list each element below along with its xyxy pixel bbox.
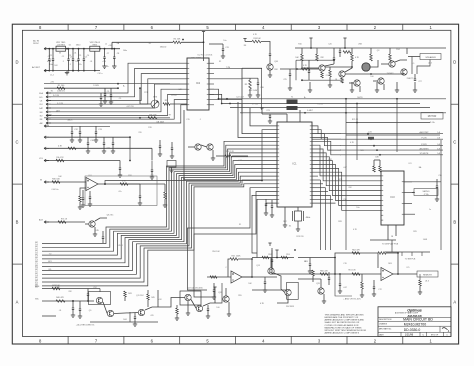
resistor R6 [56,159,64,162]
wire C25 lead [289,69,291,74]
svg-text:C18: C18 [90,140,93,142]
wire cap C4 top lead [72,49,74,59]
svg-text:C40 10u: C40 10u [51,189,58,191]
junction rail C5 [78,48,80,50]
svg-text:AC RET: AC RET [32,66,41,69]
wire R33 out [232,155,248,157]
connector arrow fan 2 [46,99,51,102]
wire R21 lead [379,160,381,166]
svg-text:4MHz: 4MHz [306,217,311,219]
junction BR feed [334,257,336,259]
svg-text:.01: .01 [59,310,62,312]
svg-text:220: 220 [138,132,141,134]
wire to SERVO label [412,191,414,194]
wire Q11 collector [145,307,158,310]
svg-text:KEY: KEY [35,242,38,244]
svg-text:IC4: IC4 [89,175,92,177]
svg-text:C1: C1 [48,56,50,58]
wire BR feed drop [334,258,336,275]
ground C42 [158,154,162,156]
svg-text:C12: C12 [74,129,77,131]
wire R20 lead [373,160,375,166]
wire MR row5 [346,134,440,136]
zone tick right [451,183,459,185]
wire IC2 fan line 3 [46,79,187,104]
junction net row 2 [373,145,375,147]
svg-text:IC2 LA4285: IC2 LA4285 [191,57,201,60]
wire IC1 right pin 16 stub [312,187,326,189]
wire C27 lead [414,74,416,79]
svg-text:RT1: RT1 [144,92,148,94]
ground C55 [206,316,210,318]
op-amp U6 [381,268,393,281]
ground C21 [268,121,272,123]
transistor Q11 [138,309,144,315]
svg-text:Q8 2SC: Q8 2SC [107,215,114,217]
svg-text:DATE: DATE [379,333,384,336]
svg-text:C72: C72 [378,289,381,291]
amp block B box [180,291,201,305]
connector arrow T182 [44,181,49,184]
svg-text:C23: C23 [266,110,269,112]
resistor R39 [343,51,351,54]
wire IC1 right pin 15 stub [312,183,323,185]
resistor R52 [262,256,269,259]
wire C25 lead2 [289,75,291,88]
junction [276,257,278,259]
svg-text:R22: R22 [283,221,286,223]
junction opamp out [104,183,106,185]
resistor R3 [148,117,157,120]
junction rail C3 [68,48,70,50]
svg-text:2.2: 2.2 [326,75,329,77]
zone tick left [12,263,22,265]
wire trunk vertical x346 [345,99,347,250]
capacitor C21 [269,116,271,117]
svg-text:SHALL NOT BE REPRODUCED OR: SHALL NOT BE REPRODUCED OR [325,321,360,324]
ground C8 [112,66,116,68]
junction [310,47,312,49]
resistor R32 [164,192,167,199]
svg-text:1/31/96: 1/31/96 [405,334,414,337]
capacitor C24 [308,71,310,72]
junction TRX1 [333,59,335,61]
junction rail C2 [52,48,54,50]
capacitor C63 [309,264,311,265]
wire CX1 lead [265,199,267,204]
wire IC3 right pin 1 [404,192,415,194]
ground C50 [71,315,75,317]
wire cap C3 bottom lead [68,60,70,70]
connector arrow fan 6 [46,114,51,117]
zone tick top [346,24,348,30]
svg-text:2SC1815: 2SC1815 [296,69,304,71]
wire IC2 right pin 6 stub [209,93,214,95]
wire TRX vert a [295,60,297,80]
svg-text:R62 47K: R62 47K [352,249,360,251]
resistor R14 [389,54,392,61]
wire C16 lead2 [257,84,259,95]
wire IC1 right pin 17 stub [312,191,328,193]
svg-text:9VDC: 9VDC [33,43,39,45]
wire bus DB10 staircase [42,180,277,282]
connector OUT box [417,271,438,277]
ground C63 [308,271,312,273]
wire cap C3 top lead [68,49,70,59]
junction [117,83,119,85]
svg-text:R9: R9 [245,84,247,86]
wire Q15 collector [320,279,322,288]
ground C54 [133,324,137,326]
wire Q18 collector [203,303,215,306]
svg-text:2SB772: 2SB772 [407,78,414,80]
capacitor CN0 [87,143,89,144]
zone tick right [451,103,459,105]
wire row4 drop [119,161,121,169]
capacitor C51 [79,309,81,310]
wire trunk x242 [241,68,243,114]
wire C60 lead2 [213,291,215,297]
wire C11 lead [222,44,224,49]
svg-text:R27: R27 [338,179,341,181]
ground C16 [256,95,260,97]
svg-text:C15: C15 [186,119,189,121]
svg-text:+5V REG: +5V REG [56,45,65,47]
wire net row3 [44,117,170,119]
capacitor C25 [289,74,291,75]
resistor R63 [378,252,386,255]
junction [261,180,263,182]
wire IC1 right pin 0 to net row [312,126,341,134]
svg-text:D-4: D-4 [35,260,38,262]
svg-text:KEY: KEY [35,281,38,283]
wire bus DB8 staircase [42,172,277,274]
svg-text:R53: R53 [286,254,289,256]
wire Q1 collector [325,64,334,66]
ground X1 [296,229,300,231]
capacitor CN1 [103,143,105,144]
svg-text:100K: 100K [423,239,428,241]
wire cap C2 top lead [52,49,54,59]
wire BC to Q15 [298,278,321,280]
wire MR row1 [219,98,447,100]
svg-text:10u: 10u [223,40,226,42]
junction row1 feed [218,98,220,100]
wire IC1 pin19 down to BC [257,199,277,257]
resistor R4 [173,41,181,44]
capacitor C72 [373,287,375,288]
svg-text:Q11 2SC: Q11 2SC [136,295,144,297]
svg-text:1u: 1u [429,209,431,211]
wire C8 lead [113,49,115,57]
wire IC2 fan line 0 [46,63,187,93]
svg-text:REG: REG [93,45,98,47]
trimmer VR3 [151,100,159,108]
wire CF lead [100,93,102,97]
junction [294,249,296,251]
ground R19 [328,85,332,87]
connector arrow T222 [44,221,49,224]
capacitor C1 [48,59,50,60]
svg-text:R25 1K: R25 1K [352,119,359,121]
microcontroller U1 (IC1) [277,122,312,207]
wire net row 4 [340,154,443,156]
wire Q10-Q11 [114,313,138,314]
wire Q2 collector [345,61,352,72]
resistor R60 [320,273,328,276]
wire BL row0 [42,288,100,290]
svg-text:KEY: KEY [35,261,38,263]
wire C62 lead2 [328,279,330,285]
wire IC1 right pin 4 to net row [312,141,341,155]
wire C55 lead2 [207,310,209,316]
wire C55 lead [207,305,209,309]
power +9V blockB [213,287,216,290]
ground C7 [102,66,106,68]
svg-text:Q12: Q12 [218,292,222,294]
capacitor C20 [333,58,335,59]
zone tick top [402,24,404,30]
svg-text:C45 .1: C45 .1 [117,245,123,247]
connector arrow T126 [44,125,49,128]
wire C24 lead [308,60,310,71]
svg-text:C44: C44 [238,160,241,162]
wire bus DB0 staircase [42,141,277,243]
wire LL row [46,221,85,223]
svg-text:C4: C4 [87,55,89,57]
capacitor C6 [83,59,85,60]
wire gnd stub [66,71,68,73]
capacitor C70 [271,260,273,261]
net label box SERVO [414,189,438,196]
wire cap C2 bottom lead [52,60,54,70]
wire BL vcc drop [157,290,159,307]
junction trunk2 [356,103,358,105]
wire R41 lead [124,297,126,301]
svg-text:IC2: IC2 [196,81,201,85]
transistor Q9 [96,297,102,303]
svg-text:D1: D1 [149,43,151,45]
svg-text:D-3: D-3 [35,256,38,258]
wire C61 lead2 [264,283,266,290]
capacitor C45 [102,237,104,238]
wire bus DB9 staircase [42,176,277,278]
wire C54 lead2 [134,318,136,324]
svg-text:C13: C13 [98,129,101,131]
transistor Q6 [195,144,201,150]
junction [226,98,228,100]
wire bus DB4 staircase [42,157,277,259]
resistor R31 [120,183,128,186]
ground CX2 [270,215,274,217]
transistor Q12 [223,296,229,302]
svg-text:THIS DRAWING AND SPECIFICATION: THIS DRAWING AND SPECIFICATIONS [325,314,365,317]
svg-text:470u: 470u [47,61,51,63]
connector arrow T148 [44,147,49,150]
wire bus DB5 staircase [42,161,277,263]
ground R64 [360,295,364,297]
capacitor C27 [414,79,416,80]
wire R19 lead2 [329,77,331,85]
wire IC1 right pin 16 drop [325,188,327,250]
svg-text:R26: R26 [360,150,363,152]
svg-text:R50 10K: R50 10K [212,251,220,253]
wire bus DB2 staircase [42,149,277,251]
wire IC2 fan line 5 [46,89,187,112]
wire trunk vertical x397 [396,99,398,152]
wire R20 R21 top [374,159,380,161]
svg-text:D: D [15,60,18,65]
wire Q6-Q7 [201,145,207,147]
wire C26 lead [339,48,341,51]
wire BL row0 drop [99,289,101,293]
wire R18 left [245,41,252,43]
op-amp U2 (IC2) [187,58,209,110]
svg-text:F-CON: F-CON [53,95,60,97]
wire mid row1 [46,125,110,127]
wire C14 lead2 [119,169,121,175]
ground CX1 [264,213,268,215]
connector MOTOR box [421,113,443,120]
transistor Q13 [268,268,274,274]
junction net row 1 [370,138,372,140]
wire blockB out [215,283,222,303]
wire C17 lead [269,50,271,54]
zone tick bottom [235,336,237,344]
svg-text:R52: R52 [268,254,271,256]
svg-text:C9: C9 [119,98,121,100]
svg-text:R31: R31 [128,175,131,177]
wire bus DB11 staircase [42,184,277,286]
svg-text:C25: C25 [283,79,286,81]
svg-text:TAPE: TAPE [35,285,40,288]
connector arrow fan 3 [46,103,51,106]
transistor Q17 [185,294,191,300]
junction trimmer feed [139,87,141,89]
wire R17 lead [249,78,251,80]
wire IC1 left pin 3 up [238,102,277,138]
capacitor C30 [436,186,438,187]
wire to Q8 base [85,223,89,225]
svg-text:R30 10K: R30 10K [52,178,60,180]
svg-text:C22 .047: C22 .047 [236,97,244,99]
capacitor C47 [89,197,91,198]
zone tick bottom [290,336,292,344]
capacitor CN2 [112,143,114,144]
wire BR output [398,273,417,275]
wire cap C1 top lead [48,49,50,59]
junction link2 [129,160,131,162]
wire BR cap lead [271,250,273,260]
wire Q8 emitter [94,227,96,234]
junction C53 [87,300,89,302]
svg-text:1/4W 5%: 1/4W 5% [57,91,65,93]
svg-text:2SD882: 2SD882 [387,73,394,75]
wire TRX row d [302,79,342,81]
junction [356,122,358,124]
svg-text:.1: .1 [62,61,64,63]
capacitor CX1 [265,204,267,205]
wire gnd drop 415 [414,82,416,90]
resistor R38 [301,68,310,71]
svg-text:C52: C52 [93,287,96,289]
junction [72,300,74,302]
wire vcc lead 2 [344,41,346,48]
wire net row 2 [340,145,443,147]
junction gnd rail C5 [78,70,80,72]
wire BR gnd path [335,274,352,296]
svg-text:R6 4.7K: R6 4.7K [56,157,64,159]
voltage regulator VR1 [56,46,66,51]
zone tick top [179,24,181,30]
wire BR to opamp [340,273,381,275]
wire to R33 [216,155,225,157]
wire TRX row b [325,66,352,68]
capacitor CF1 [100,97,102,98]
ground CF1 [99,104,103,106]
svg-text:C: C [15,140,18,145]
wire IC1 right pin 18 stub [312,194,331,196]
wire C20 lead [333,54,335,58]
svg-text:C48: C48 [178,89,181,91]
svg-text:IC5: IC5 [407,267,410,269]
resistor R65 [419,280,422,286]
zone tick bottom [67,336,69,344]
junction link [129,136,131,138]
wire IC1 right pin 19 stub [312,198,333,200]
svg-text:R42: R42 [56,287,59,289]
svg-text:KEY: KEY [35,269,38,271]
wire IC2 pin6 to row1 [209,89,219,99]
svg-text:P-ON: P-ON [422,137,428,139]
svg-text:KEY: KEY [35,246,38,248]
op-amp U4A [86,178,98,191]
wire subTR mid [242,77,258,79]
wire stub 422 [421,252,423,256]
svg-text:D-5: D-5 [35,263,38,265]
wire opamp fb drop [82,190,84,198]
svg-text:D-2: D-2 [35,252,38,254]
wire ground rail [44,70,100,72]
resistor R15 [321,72,324,78]
junction gnd rail C4 [72,70,74,72]
wire bus DB3 staircase [42,153,277,255]
capacitor C8 [113,57,115,58]
ground R36 [78,207,82,209]
wire mid row3 drop [151,148,153,160]
wire cap M0 lead2 [71,133,73,140]
svg-text:REMOTE: REMOTE [423,274,433,276]
zone tick top [235,24,237,30]
junction [182,39,184,41]
svg-text:C20: C20 [328,44,331,46]
wire IC1 bottom lead1 [284,207,286,225]
wire gnd drop 352 [351,82,353,90]
wire R65 lead [419,286,421,292]
resistor R53 [281,256,288,259]
junction opamp out net [104,183,106,185]
wire cap C1 bottom lead [48,60,50,70]
wire C20 lead2 [333,59,335,64]
driver box [287,282,299,299]
svg-text:J1-2: J1-2 [50,75,54,77]
svg-text:MOTOR: MOTOR [428,116,437,118]
junction [66,48,68,50]
junction rail C4 [72,48,74,50]
wire mid row2 [46,136,130,138]
svg-text:C11: C11 [225,47,228,49]
wire blockA to blockB [158,298,185,308]
